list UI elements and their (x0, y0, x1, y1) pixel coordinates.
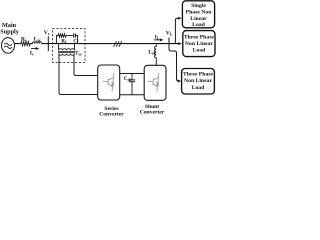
svg-text:Rs: Rs (21, 36, 27, 42)
svg-text:Three Phase: Three Phase (184, 34, 215, 40)
svg-text:Tse: Tse (75, 50, 82, 56)
svg-text:Linear: Linear (190, 16, 207, 22)
svg-text:Lse: Lse (34, 36, 41, 42)
svg-text:Single: Single (191, 3, 206, 9)
svg-text:Lsh: Lsh (148, 49, 156, 55)
svg-text:Load: Load (192, 85, 205, 91)
svg-text:Cf: Cf (73, 38, 79, 44)
svg-text:Cdc: Cdc (124, 76, 132, 82)
svg-text:Load: Load (193, 48, 206, 54)
svg-text:Three Phase: Three Phase (183, 72, 214, 78)
svg-text:Vs: Vs (44, 30, 50, 36)
svg-text:Non Linear: Non Linear (185, 41, 213, 47)
svg-text:Phase Non: Phase Non (186, 9, 213, 15)
svg-text:VL: VL (166, 31, 173, 37)
svg-text:Converter: Converter (140, 109, 165, 115)
svg-text:Rf: Rf (61, 38, 67, 44)
svg-text:Load: Load (192, 22, 205, 28)
svg-text:Converter: Converter (99, 112, 124, 118)
svg-text:Non Linear: Non Linear (184, 78, 212, 84)
svg-text:Is: Is (30, 51, 34, 57)
svg-text:IL: IL (155, 35, 160, 41)
svg-text:Supply: Supply (0, 28, 19, 35)
